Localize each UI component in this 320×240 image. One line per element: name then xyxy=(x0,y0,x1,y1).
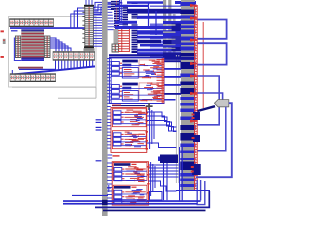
pin grid P2 top cap xyxy=(84,5,94,7)
bus crossing navy block xyxy=(102,200,108,205)
wire band 7 (horizontal bus wires) xyxy=(115,21,137,24)
pin grid P2 (tall ladder) xyxy=(85,7,94,47)
gray wire (right vertical) xyxy=(95,87,97,98)
bottom bus wire 2 xyxy=(63,200,201,202)
bottom bus wire 4 xyxy=(95,191,209,207)
component stack K (dark) xyxy=(123,5,129,29)
stubs P3 to stack K xyxy=(119,3,123,27)
IC U1 left pins xyxy=(15,36,20,58)
pin grid P3 (dark ladder) xyxy=(114,1,119,29)
power rail (red vertical pair) xyxy=(195,5,198,191)
wire (horizontal in bundle) xyxy=(19,68,56,70)
junction cross (dark) xyxy=(146,103,153,110)
gray border line (module bottom) xyxy=(12,86,96,88)
wire band 15 (horizontal bus wires) xyxy=(140,44,181,47)
sub-sheet border (top-left module) xyxy=(9,17,97,88)
wire band 8 (horizontal bus wires) xyxy=(163,21,181,24)
wire band 16 (horizontal bus wires) xyxy=(163,45,181,48)
wire bundle diagonal (right) xyxy=(56,66,95,70)
gray bus segment A (vertical) xyxy=(163,0,166,55)
wire to tag (lower) xyxy=(198,93,223,100)
IC U1 right pins xyxy=(44,36,50,58)
wire (vertical along U1 left) xyxy=(14,38,21,61)
wire band 5 (horizontal bus wires) xyxy=(127,9,181,14)
wire box right of FB3 bottom xyxy=(150,192,163,201)
wire band 18 (horizontal bus wires) xyxy=(137,52,181,54)
wire band 17 (horizontal bus wires) xyxy=(137,49,181,52)
wire band 13 (horizontal bus wires) xyxy=(137,40,161,44)
wire verticals in band region xyxy=(120,0,157,35)
rail component blob 3 xyxy=(191,164,201,175)
wire stub red (left edge lower) xyxy=(1,56,4,58)
maroon bar part over RN2 xyxy=(18,67,43,69)
bottom bus wire 3 xyxy=(63,203,197,205)
thin gray feeder lines (vertical pair) xyxy=(176,55,178,183)
pin ticks left of P2 xyxy=(82,8,84,42)
wire band 12 (horizontal bus wires) xyxy=(163,33,181,38)
bus entry stubs P2 to bus xyxy=(93,7,102,46)
wire staircase from top into module xyxy=(71,2,122,27)
wires FB1 to right bus (comb) xyxy=(165,60,182,100)
wire band 3 (horizontal bus wires) xyxy=(115,5,148,7)
bus stubs left side (small) xyxy=(96,119,102,161)
function block FB3 (red box) xyxy=(112,162,149,205)
wire (vertical at bundle left) xyxy=(11,70,13,75)
wire horizontal under bus column xyxy=(176,190,210,192)
function block FB2 (red box) xyxy=(111,108,148,153)
red pin stubs on rail xyxy=(190,4,197,122)
gray bus segment C (vertical) xyxy=(173,14,176,55)
red inner rail (thin vertical) xyxy=(202,22,204,108)
bus stubs to function blocks (left combs) xyxy=(107,59,112,202)
wire corner U (outer) xyxy=(197,180,205,205)
bus stubs between FB2 and FB3 xyxy=(108,155,120,158)
wire drops from RN1 to bundle xyxy=(56,61,93,71)
gray bar gap overlays xyxy=(163,24,176,49)
wire staircase FB2 to right bus xyxy=(147,112,177,148)
FB1 sub-circuit 2 xyxy=(111,82,163,101)
wire band 19 (horizontal bus wires) xyxy=(163,53,181,58)
IC U1 body (striped) xyxy=(21,29,44,61)
wire tag down-left (outer) xyxy=(198,107,226,151)
vertical bus (main gray) xyxy=(102,0,108,216)
FB1 red right rail xyxy=(157,58,164,103)
rail component blob 1 xyxy=(192,112,201,120)
wire band 10 (horizontal bus wires) xyxy=(137,30,181,34)
pin cells under P3 xyxy=(112,44,119,52)
FB3 sub-circuit 1 xyxy=(113,162,147,182)
red pin rail frame (left pair) xyxy=(118,26,129,52)
wire loop 1 (right) xyxy=(198,20,227,39)
navy blocks left of right bus xyxy=(172,24,182,52)
wire band 6 (horizontal bus wires) xyxy=(137,16,181,19)
stack L white gaps xyxy=(132,5,138,25)
wire pair vertical (left of right bus) xyxy=(180,147,183,200)
wire outer loop via right edge xyxy=(196,103,232,177)
small part left of border xyxy=(3,39,6,44)
wire band 9 (horizontal bus wires) xyxy=(115,26,181,29)
bottom bus wire 1 xyxy=(72,194,108,196)
wire stub above bottom lines xyxy=(107,185,111,192)
wires right of FB2 (verticals) xyxy=(150,108,154,149)
wire thick navy (rail to tag) xyxy=(198,106,216,111)
gray bus segment B (vertical) xyxy=(168,0,171,55)
wire fan from U1 right pins to RN1 xyxy=(50,38,71,51)
bus entry stubs bus to P3 xyxy=(108,4,115,30)
component stack L (dark) xyxy=(132,2,138,53)
wire to tag (upper) xyxy=(198,76,220,125)
thick navy wire bundle blob xyxy=(158,155,178,164)
wires right of FB3 xyxy=(149,162,179,196)
wire bundle diagonal (left) xyxy=(12,70,56,74)
wire (horizontal under J1) xyxy=(10,27,88,29)
gray wire (lower horizontal) xyxy=(58,97,96,99)
wire loop 2 (right) xyxy=(198,43,227,64)
wire band 14 (horizontal bus wires) xyxy=(163,40,181,44)
off-page connector tag xyxy=(215,100,229,107)
wires down from navy blob xyxy=(164,163,168,200)
resistor network RN2 (bottom strip) xyxy=(10,73,56,82)
FB2 sub-circuit 1 xyxy=(112,109,146,127)
FB3 sub-circuit 2 xyxy=(113,185,147,205)
pin grid P3 small top xyxy=(111,1,114,11)
bottom bus wire 5 (dark) xyxy=(103,210,206,212)
wire band 4 (horizontal bus wires) xyxy=(150,6,181,7)
rail component blob 2 xyxy=(192,135,201,142)
FB1 sub-circuit 1 xyxy=(111,60,162,79)
wire corner (inner down) xyxy=(200,180,202,200)
light blue wire column xyxy=(150,24,163,59)
function block FB1 (outer box) xyxy=(109,58,164,104)
FB2 sub-circuit 2 xyxy=(112,131,146,149)
connector strip J1 (top) xyxy=(10,18,54,27)
wire band group A top (navy double) xyxy=(109,54,181,58)
resistor network RN1 (right strip) xyxy=(53,51,95,60)
wire stub red (left edge upper) xyxy=(1,30,4,32)
pin grid P2 base xyxy=(84,46,95,50)
wire band 11 (horizontal bus wires) xyxy=(137,36,181,39)
divider wire and red dashes under FB1 xyxy=(112,104,145,107)
wire band 1 (horizontal bus wires) xyxy=(127,1,163,4)
wire (short blue under J1 left) xyxy=(11,30,18,31)
bus wire dashes on right bus xyxy=(163,2,196,187)
vertical bus (right gray) xyxy=(181,0,195,191)
wire band 2 (horizontal bus wires) xyxy=(175,1,196,4)
wires above pin grid P2 xyxy=(86,0,92,6)
gray bus segment under P3 xyxy=(114,29,119,44)
